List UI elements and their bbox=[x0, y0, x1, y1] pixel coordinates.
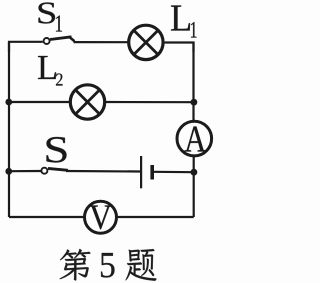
label S1 letter S bbox=[39, 3, 56, 24]
wire: bottom row left segment (left rail to voltmeter) bbox=[9, 216, 84, 218]
wire: third row middle segment (switch S to battery) bbox=[66, 170, 140, 173]
label L1 subscript 1 bbox=[191, 22, 197, 38]
lamp L2 bbox=[70, 85, 104, 119]
ammeter circle bbox=[177, 121, 212, 156]
wire: right vertical rail lower segment (ammeter to bottom corner) bbox=[193, 156, 195, 217]
battery short plate bbox=[150, 165, 154, 180]
label L2 subscript 2 bbox=[56, 74, 63, 86]
voltmeter circle bbox=[85, 201, 117, 233]
junction node right rail / L2 branch bbox=[191, 99, 198, 106]
label S1 subscript 1 bbox=[56, 16, 62, 32]
lamp L1 bbox=[129, 25, 163, 59]
label L1 letter L bbox=[171, 6, 190, 31]
battery long plate bbox=[140, 156, 142, 188]
wire: left vertical rail bbox=[8, 42, 10, 217]
junction node left rail / L2 branch bbox=[5, 99, 12, 106]
junction node right rail / battery branch bbox=[191, 169, 198, 176]
voltmeter letter V bbox=[90, 206, 112, 230]
wire: top row segment from lamp L1 to top-right corner bbox=[165, 43, 194, 53]
caption character first (di) bbox=[60, 249, 91, 281]
switch S pivot bbox=[41, 168, 47, 174]
wire: top row left segment from top-left corner to switch S1 bbox=[9, 42, 43, 52]
switch S1 contact tick bbox=[70, 38, 75, 42]
wire: right vertical rail upper segment (corner to ammeter) bbox=[192, 43, 194, 122]
wire: third row right segment (battery to right rail) bbox=[154, 171, 194, 174]
wire: top row segment from switch S1 to lamp L1 bbox=[74, 41, 128, 43]
wire: second row left segment (left rail to lamp L2) bbox=[9, 101, 69, 103]
switch S1 pivot bbox=[44, 38, 50, 44]
ammeter letter A bbox=[185, 127, 207, 152]
caption digit 5 bbox=[101, 253, 115, 278]
label L2 letter L bbox=[38, 56, 56, 79]
caption character last (ti) bbox=[126, 249, 157, 281]
junction node left rail / battery branch bbox=[5, 168, 12, 175]
wire: third row left segment (left rail to switch S) bbox=[9, 170, 41, 172]
wire: second row right segment (lamp L2 to right rail) bbox=[106, 101, 194, 103]
switch S1 blade bbox=[50, 37, 72, 40]
switch S blade bbox=[48, 168, 68, 170]
label S letter S bbox=[47, 137, 67, 163]
wire: bottom row right segment (voltmeter to right rail) bbox=[117, 216, 194, 218]
